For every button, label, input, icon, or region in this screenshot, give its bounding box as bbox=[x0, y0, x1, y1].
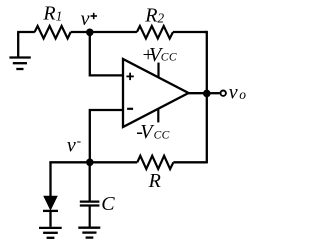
svg-text:R: R bbox=[144, 5, 157, 27]
wire v- node down to capacitor bbox=[89, 162, 91, 200]
label R1 bbox=[42, 2, 62, 24]
ground G1 (top-left) bbox=[9, 32, 30, 69]
ground G3 (under capacitor) bbox=[78, 228, 100, 238]
svg-text:v: v bbox=[81, 8, 90, 30]
label R2 bbox=[144, 5, 164, 27]
svg-text:CC: CC bbox=[161, 52, 177, 64]
resistor R1 bbox=[35, 26, 71, 39]
label vo bbox=[229, 82, 247, 104]
label +VCC bbox=[141, 44, 177, 66]
label C bbox=[101, 193, 115, 215]
corner right-top bbox=[205, 31, 207, 33]
svg-text:o: o bbox=[239, 87, 246, 102]
resistor R bbox=[137, 156, 173, 169]
svg-text:CC: CC bbox=[154, 129, 170, 141]
capacitor C bbox=[80, 202, 100, 227]
node output (junction dot) bbox=[203, 90, 211, 98]
node v+ (junction dot) bbox=[86, 29, 94, 37]
wire R2 to right rail bbox=[173, 31, 206, 33]
wire diode corner to v- node to R bbox=[51, 162, 138, 163]
op-amp plus input sign bbox=[126, 73, 133, 80]
svg-text:-: - bbox=[77, 133, 82, 148]
svg-text:1: 1 bbox=[56, 8, 63, 23]
label v+ bbox=[81, 8, 97, 30]
wire op-amp output to node bbox=[187, 92, 207, 94]
diode D1 bbox=[43, 196, 58, 227]
+VCC supply stub bbox=[157, 63, 159, 78]
ground G2 (under diode) bbox=[39, 228, 62, 238]
svg-text:C: C bbox=[101, 193, 115, 215]
wire v- corner down to diode bbox=[49, 162, 51, 196]
node v- (junction dot) bbox=[86, 159, 94, 167]
svg-text:v: v bbox=[229, 82, 238, 104]
op-amp U1 triangle bbox=[123, 59, 189, 127]
wire R to right rail bbox=[173, 161, 206, 163]
-VCC supply stub bbox=[157, 108, 159, 122]
svg-text:R: R bbox=[148, 170, 161, 192]
wire right rail vertical bbox=[206, 31, 208, 164]
svg-text:R: R bbox=[42, 2, 55, 24]
svg-text:v: v bbox=[67, 134, 76, 156]
wire ground to R1 bbox=[17, 31, 35, 33]
wire node to output terminal bbox=[207, 92, 220, 94]
wire inverting input left and down to v- node bbox=[90, 110, 123, 162]
svg-text:2: 2 bbox=[157, 10, 164, 25]
wire v+ down to noninverting input bbox=[90, 33, 123, 75]
op-amp minus input sign bbox=[127, 108, 133, 110]
output terminal (open circle) bbox=[221, 91, 226, 96]
label v- bbox=[67, 133, 82, 156]
resistor R2 bbox=[137, 26, 173, 39]
label -VCC bbox=[136, 121, 170, 143]
label R bbox=[148, 170, 161, 192]
wire R1 to v+ node to R2 bbox=[71, 31, 137, 33]
